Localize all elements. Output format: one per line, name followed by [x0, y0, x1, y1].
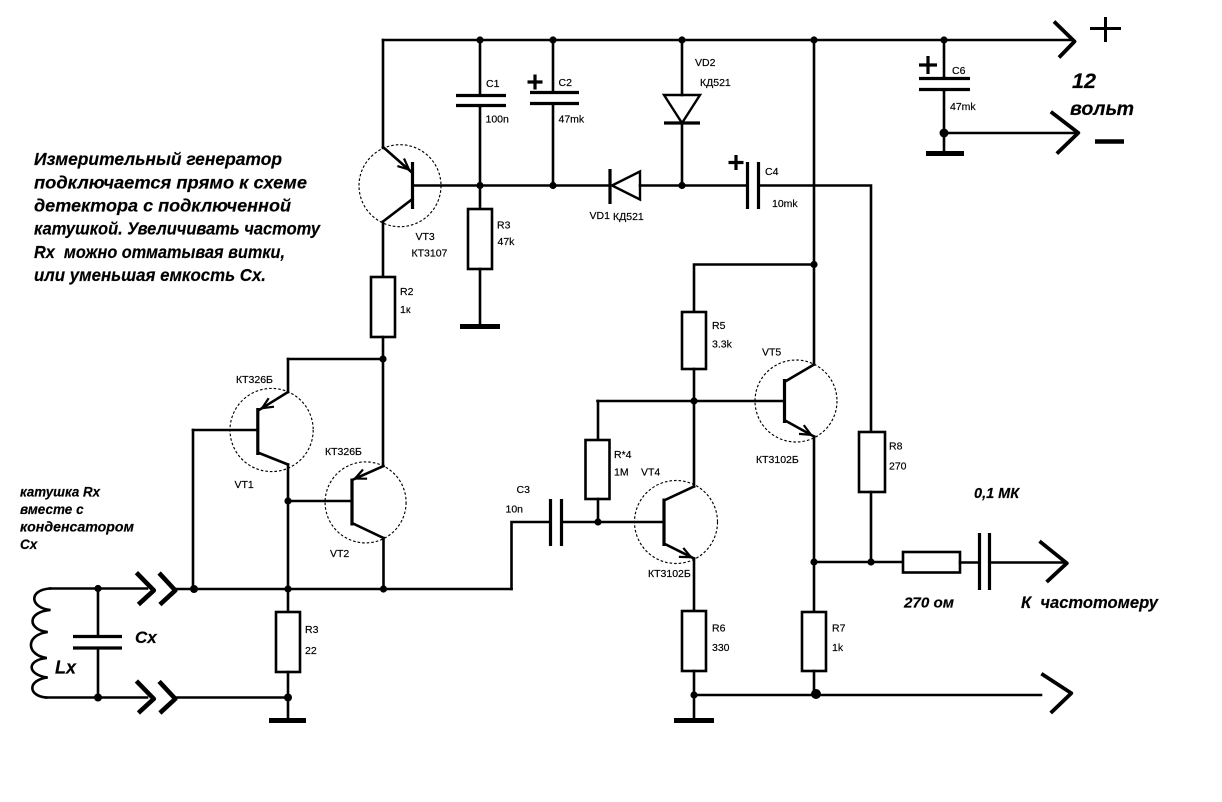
- svg-text:VT4: VT4: [641, 467, 660, 479]
- arrow plus output: [1054, 22, 1075, 58]
- svg-text:R5: R5: [712, 320, 726, 332]
- svg-text:C4: C4: [765, 166, 779, 178]
- svg-text:Измерительный генератор: Измерительный генератор: [34, 149, 282, 169]
- transistor VT1 (КТ326Б PNP): [193, 388, 313, 471]
- node dot C1 bottom: [476, 182, 483, 189]
- node dot VD2 bottom: [678, 182, 685, 189]
- capacitor C6: [919, 40, 970, 133]
- wire VT5 emitter vertical: [813, 437, 816, 563]
- diode VD1 КД521: [610, 169, 746, 204]
- resistor R8: [859, 432, 885, 562]
- svg-text:подключается прямо к схеме: подключается прямо к схеме: [34, 173, 307, 193]
- svg-text:R3: R3: [305, 624, 319, 636]
- node dot R7 bottom: [811, 689, 821, 699]
- wire VT2 collector vertical: [382, 538, 385, 589]
- wire minus rail: [944, 132, 1077, 135]
- svg-text:1M: 1M: [614, 467, 629, 479]
- svg-text:100n: 100n: [486, 114, 510, 126]
- svg-text:КТ326Б: КТ326Б: [325, 446, 362, 458]
- plus mark C2: [528, 75, 543, 90]
- svg-text:0,1 МК: 0,1 МК: [974, 486, 1020, 502]
- svg-text:Cx: Cx: [135, 628, 158, 647]
- svg-text:47k: 47k: [498, 236, 516, 248]
- node dot VT5 emitter / R7: [810, 558, 817, 565]
- transistor VT4 (КТ3102Б NPN): [635, 481, 718, 564]
- ground under R3: [460, 324, 500, 329]
- svg-text:VT3: VT3: [416, 231, 435, 243]
- svg-text:VD2: VD2: [695, 57, 716, 69]
- wire VT1 emitter vertical: [287, 359, 290, 392]
- wire top supply rail: [383, 39, 1073, 42]
- svg-text:C2: C2: [559, 77, 573, 89]
- svg-text:КТ3102Б: КТ3102Б: [648, 568, 691, 580]
- capacitor Cx: [73, 589, 122, 698]
- node dot VT5 collector rail: [810, 36, 817, 43]
- note text coil: [20, 485, 134, 553]
- wire bottom rail right: [694, 694, 1041, 697]
- svg-text:Сх: Сх: [20, 537, 38, 552]
- svg-text:катушкой. Увеличивать частоту: катушкой. Увеличивать частоту: [34, 219, 321, 239]
- resistor R*4: [586, 401, 610, 522]
- wire VT5 collector rail vertical: [813, 40, 816, 365]
- svg-text:270: 270: [889, 461, 907, 473]
- resistor 270 ом output: [903, 552, 960, 573]
- node dot C2 bottom: [549, 182, 556, 189]
- node dot R6 bottom: [690, 691, 697, 698]
- wire output node rail: [814, 561, 903, 564]
- svg-text:270 ом: 270 ом: [903, 596, 954, 612]
- wire lower input rail: [176, 696, 288, 699]
- node dot R5 bottom / VT4 collector: [690, 397, 697, 404]
- svg-text:47mk: 47mk: [559, 114, 585, 126]
- wire R6 bottom: [693, 671, 696, 695]
- inductor Lx: [31, 589, 51, 698]
- arrow bottom rail output: [1041, 674, 1071, 713]
- svg-text:VT1: VT1: [235, 479, 254, 491]
- capacitor C2: [530, 40, 579, 186]
- wire VT4 collector vertical: [693, 401, 696, 487]
- connector chevrons lower input: [136, 681, 153, 713]
- resistor R7: [802, 562, 826, 695]
- svg-text:КД521: КД521: [700, 77, 731, 89]
- svg-text:10mk: 10mk: [772, 198, 798, 210]
- svg-text:1к: 1к: [400, 304, 411, 316]
- ground under C6: [943, 133, 946, 151]
- ground under R6: [693, 695, 696, 718]
- node dot VT1 collector / VT2 base: [284, 497, 291, 504]
- wire R2 bottom: [382, 337, 385, 359]
- resistor R3 22: [276, 589, 300, 698]
- connector chevrons upper input: [136, 573, 153, 605]
- transistor VT3 (КТ3107 PNP): [359, 145, 441, 277]
- svg-text:47mk: 47mk: [950, 101, 976, 113]
- node dot VT1 base bottom: [190, 585, 198, 593]
- svg-text:R8: R8: [889, 441, 903, 453]
- capacitor C3: [512, 499, 663, 589]
- resistor R2: [371, 277, 395, 337]
- node dot Cx top: [94, 585, 101, 592]
- resistor R6: [682, 611, 706, 671]
- minus terminal symbol: [1095, 139, 1124, 144]
- svg-text:12: 12: [1072, 69, 1096, 93]
- svg-text:детектора с подключенной: детектора с подключенной: [34, 196, 291, 216]
- svg-text:C6: C6: [952, 65, 966, 77]
- svg-text:или уменьшая емкость Сх.: или уменьшая емкость Сх.: [34, 265, 266, 285]
- svg-text:вольт: вольт: [1070, 98, 1134, 120]
- svg-text:VD1: VD1: [590, 210, 611, 222]
- svg-text:330: 330: [712, 642, 730, 654]
- svg-text:R7: R7: [832, 623, 846, 635]
- wire tank top: [50, 587, 147, 590]
- node dot C1 top: [476, 36, 483, 43]
- svg-text:R2: R2: [400, 286, 414, 298]
- svg-text:22: 22: [305, 645, 317, 657]
- node dot VT2 collector bottom: [380, 585, 387, 592]
- node dot C6 bottom: [940, 129, 949, 138]
- svg-text:КТ3102Б: КТ3102Б: [756, 454, 799, 466]
- svg-text:Rx можно отматывая витки,: Rx можно отматывая витки,: [34, 242, 285, 262]
- plus terminal symbol: [1090, 17, 1121, 42]
- svg-text:К частотомеру: К частотомеру: [1021, 594, 1159, 612]
- svg-text:C3: C3: [517, 484, 531, 496]
- node dot C2 top: [549, 36, 556, 43]
- wire resistor to cap: [960, 561, 978, 564]
- wire VT4 emitter vertical: [693, 559, 696, 612]
- note text paragraph: [34, 149, 321, 285]
- resistor R5: [682, 265, 814, 402]
- transistor VT2 (КТ326Б PNP): [325, 462, 406, 543]
- svg-text:C1: C1: [486, 78, 500, 90]
- node dot Cx bottom: [94, 694, 102, 702]
- transistor VT5 (КТ3102Б NPN): [755, 360, 837, 442]
- capacitor C4: [748, 162, 872, 432]
- svg-text:Lx: Lx: [55, 658, 77, 678]
- arrow minus output: [1051, 112, 1079, 154]
- svg-text:конденсатором: конденсатором: [20, 520, 134, 535]
- node dot R3 22 bottom: [284, 694, 292, 702]
- node dot R8 bottom: [867, 558, 874, 565]
- node dot R3-22 top rail: [284, 585, 291, 592]
- svg-text:КД521: КД521: [613, 211, 644, 223]
- wire tank bottom: [46, 696, 147, 699]
- capacitor C1: [456, 40, 506, 186]
- node dot VD2 top: [678, 36, 685, 43]
- svg-text:1k: 1k: [832, 642, 844, 654]
- ground under R3 22: [287, 698, 290, 719]
- wire cap to arrow: [991, 561, 1065, 564]
- svg-text:КТ326Б: КТ326Б: [236, 374, 273, 386]
- wire VT3 emitter to rail: [382, 40, 385, 148]
- svg-text:VT5: VT5: [762, 347, 781, 359]
- wire mid rail: [414, 184, 610, 187]
- node dot R*4 bottom: [594, 518, 601, 525]
- wire base rail VT5: [598, 400, 784, 403]
- wire VT2 base: [288, 500, 351, 503]
- node dot R2 bottom: [379, 355, 386, 362]
- wire VT2 emitter vertical: [382, 359, 385, 466]
- svg-text:3.3k: 3.3k: [712, 339, 733, 351]
- svg-text:10n: 10n: [506, 504, 524, 516]
- plus mark C6: [919, 56, 937, 74]
- capacitor 0,1 МК output: [980, 533, 990, 590]
- svg-text:R*4: R*4: [614, 449, 632, 461]
- svg-text:вместе с: вместе с: [20, 502, 84, 517]
- svg-text:КТ3107: КТ3107: [412, 248, 448, 260]
- svg-text:катушка Rx: катушка Rx: [20, 485, 100, 500]
- node dot R5 top: [810, 261, 817, 268]
- svg-text:R6: R6: [712, 623, 726, 635]
- wire VT1 collector vertical: [287, 465, 290, 590]
- resistor R3 47k: [468, 186, 492, 325]
- arrow К частотомеру: [1040, 541, 1067, 582]
- svg-text:R3: R3: [497, 220, 511, 232]
- plus mark C4: [729, 155, 744, 170]
- node dot C6 top: [940, 36, 947, 43]
- svg-text:VT2: VT2: [330, 548, 349, 560]
- wire VT1 base vertical: [192, 430, 195, 589]
- wire bottom oscillator rail: [176, 588, 512, 591]
- diode VD2 КД521: [664, 40, 700, 186]
- wire emitter link: [288, 358, 383, 361]
